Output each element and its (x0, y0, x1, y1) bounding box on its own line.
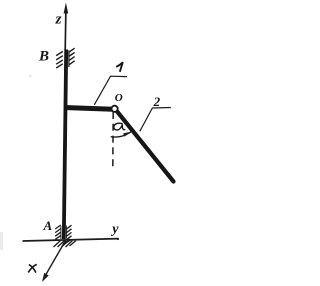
svg-text:A: A (43, 218, 53, 233)
svg-text:z: z (55, 12, 62, 28)
svg-text:B: B (38, 48, 49, 64)
svg-text:O: O (115, 92, 123, 104)
svg-text:y: y (110, 222, 119, 237)
svg-text:2: 2 (153, 94, 161, 109)
